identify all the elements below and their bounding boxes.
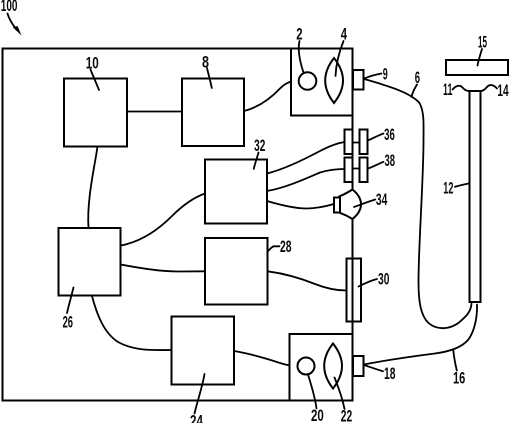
leader 38: [368, 162, 384, 169]
cable 6 from port 9 to probe 12 bottom: [364, 79, 472, 328]
wire box28-conn30: [268, 271, 347, 290]
svg-text:24: 24: [190, 412, 203, 423]
leader 12: [455, 184, 469, 187]
port 18: [353, 356, 364, 376]
svg-text:38: 38: [385, 151, 396, 170]
svg-text:26: 26: [63, 313, 73, 332]
svg-text:15: 15: [478, 33, 487, 52]
leader 36: [368, 134, 384, 141]
svg-text:28: 28: [280, 237, 292, 256]
leader 9: [365, 74, 382, 79]
box 10: [64, 79, 127, 147]
wire box32-horn34: [267, 201, 334, 209]
leader 26: [67, 288, 74, 314]
svg-text:16: 16: [453, 369, 465, 388]
wire box10-box8: [127, 111, 182, 113]
wire box10-box26: [88, 147, 97, 229]
wire box26-box28: [121, 265, 206, 272]
connector 36 outer half: [360, 130, 368, 155]
leader 8: [207, 68, 212, 88]
box 26: [59, 228, 121, 296]
svg-text:6: 6: [415, 68, 420, 87]
lamp circle 2: [299, 72, 317, 90]
svg-text:2: 2: [296, 25, 302, 44]
leader 20: [308, 374, 317, 409]
leader 14 wavy: [480, 85, 497, 91]
box 24: [172, 317, 235, 385]
wire box32-conn38: [267, 169, 345, 191]
connector 30: [347, 259, 362, 322]
svg-text:30: 30: [378, 270, 389, 289]
leader 18: [364, 365, 383, 371]
horn 34 stub: [334, 198, 340, 213]
wire box24-circle20: [234, 351, 298, 366]
leader 6: [412, 85, 418, 98]
leader 4: [336, 41, 344, 76]
svg-text:36: 36: [384, 125, 395, 144]
wire box26-box24: [92, 296, 172, 350]
svg-text:20: 20: [311, 406, 324, 423]
horn transducer 34: [340, 190, 362, 220]
leader 34: [354, 200, 375, 208]
lens 4: [325, 58, 343, 103]
port 9: [353, 70, 364, 90]
svg-text:9: 9: [383, 65, 388, 84]
lamp circle 20: [298, 358, 315, 375]
camera housing top-right: [291, 49, 353, 116]
leader 15: [478, 49, 483, 66]
leader 2: [299, 41, 304, 73]
svg-text:8: 8: [202, 53, 209, 72]
calibration bar 15: [446, 60, 508, 75]
svg-text:32: 32: [254, 136, 265, 155]
leader 30: [359, 279, 378, 287]
connector 38 inner half: [345, 158, 353, 183]
box 8: [182, 79, 244, 147]
box 32: [205, 160, 267, 224]
svg-text:18: 18: [384, 364, 396, 383]
connector 36 link bar: [353, 142, 360, 144]
connector 38 link bar: [353, 168, 360, 170]
box 28: [205, 238, 268, 305]
lens 22: [324, 344, 342, 389]
svg-text:100: 100: [1, 0, 18, 15]
wire box32-conn36: [267, 142, 345, 174]
leader 28: [267, 246, 279, 252]
svg-text:12: 12: [443, 179, 453, 198]
leader 16: [453, 351, 457, 371]
camera housing bottom-right: [290, 334, 353, 401]
leader 22: [335, 378, 345, 410]
arrow leader for 100: [8, 14, 17, 30]
leader 24: [195, 374, 205, 414]
svg-text:10: 10: [86, 54, 99, 73]
leader 32: [254, 153, 259, 169]
svg-text:11: 11: [443, 80, 452, 99]
wire box26-box32: [121, 194, 206, 246]
svg-text:34: 34: [376, 190, 388, 209]
svg-text:14: 14: [497, 81, 509, 100]
connector 38 outer half: [360, 158, 368, 183]
cable 16 from probe 12 bottom to port 18: [364, 305, 478, 365]
leader 10: [91, 70, 100, 91]
wire box8-circle2: [244, 81, 298, 111]
svg-text:22: 22: [341, 407, 352, 423]
svg-text:4: 4: [341, 25, 348, 44]
enclosure outer box: [3, 49, 353, 401]
connector 36 inner half: [345, 130, 353, 155]
leader 11 wavy: [453, 86, 471, 91]
probe shaft 12: [470, 91, 481, 302]
